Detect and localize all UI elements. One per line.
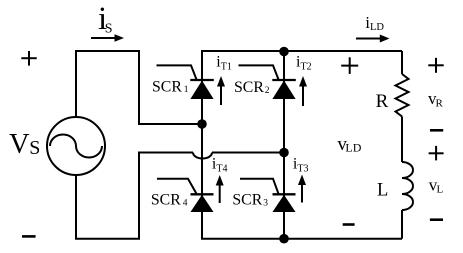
bottom junction dot: [279, 234, 289, 244]
arrow iT2: [299, 76, 307, 106]
label SCR4: [151, 192, 188, 209]
svg-text:L: L: [437, 184, 444, 196]
wire between R and L: [401, 117, 403, 163]
label SCR3: [232, 191, 268, 208]
svg-text:1: 1: [184, 85, 189, 95]
svg-text:T4: T4: [216, 164, 227, 175]
bottom rail: [201, 238, 402, 240]
left bridge rail: [201, 51, 203, 239]
label SCR2: [234, 79, 270, 96]
source minus terminal: [22, 235, 36, 238]
resistor R: [396, 74, 409, 117]
label vLD: [337, 134, 361, 155]
svg-text:SCR: SCR: [232, 191, 262, 208]
svg-text:SCR: SCR: [234, 79, 264, 96]
svg-text:LD: LD: [345, 141, 361, 155]
svg-text:S: S: [105, 22, 113, 37]
arrow iT1: [217, 76, 225, 105]
wire hop over left rail: [193, 153, 212, 159]
plus vR: [428, 58, 443, 73]
svg-text:T2: T2: [301, 62, 312, 73]
svg-text:SCR: SCR: [151, 192, 181, 209]
arrow iT4: [216, 175, 224, 203]
svg-text:T1: T1: [221, 62, 232, 73]
wire load top: [401, 51, 403, 74]
svg-text:T3: T3: [297, 164, 308, 175]
svg-text:S: S: [29, 137, 40, 159]
label vR: [428, 89, 444, 110]
label vL: [429, 176, 444, 196]
current label iT3: [293, 156, 309, 175]
current label iT4: [212, 156, 228, 175]
top junction dot: [279, 47, 289, 57]
arrow iT3: [298, 175, 306, 203]
load minus vLD: [343, 223, 355, 226]
thyristor SCR4: [157, 179, 214, 212]
thyristor SCR2: [239, 65, 296, 99]
label SCR1: [152, 78, 189, 95]
svg-text:R: R: [436, 98, 444, 110]
svg-text:2: 2: [265, 86, 270, 96]
thyristor SCR1: [157, 65, 214, 99]
arrow iS: [91, 34, 124, 42]
svg-text:V: V: [9, 129, 30, 160]
current label iS: [98, 1, 112, 37]
plus vL: [429, 146, 444, 161]
svg-text:3: 3: [263, 198, 268, 208]
arrow iLD: [356, 35, 390, 43]
source plus terminal: [21, 51, 36, 66]
current label iT2: [296, 54, 312, 73]
node B junction dot: [279, 148, 289, 158]
svg-text:L: L: [377, 180, 388, 200]
minus vR: [430, 129, 443, 132]
node A junction dot: [197, 119, 207, 129]
current label iT1: [216, 54, 232, 73]
top rail: [201, 50, 402, 52]
minus vL: [430, 218, 443, 221]
label VS: [9, 129, 40, 160]
right bridge rail: [283, 51, 285, 239]
thyristor SCR3: [240, 179, 296, 212]
wire from hop to node B: [212, 152, 284, 154]
svg-text:4: 4: [183, 198, 188, 208]
svg-text:LD: LD: [370, 22, 384, 33]
wire from source top to node A: [76, 51, 202, 124]
inductor L: [402, 162, 413, 210]
load plus vLD: [341, 57, 358, 74]
svg-text:R: R: [376, 91, 389, 112]
wire from source bottom: [76, 153, 193, 239]
wire load bottom: [401, 210, 403, 239]
current label iLD: [365, 13, 384, 33]
voltage source VS: [47, 117, 105, 175]
svg-text:SCR: SCR: [152, 78, 182, 95]
